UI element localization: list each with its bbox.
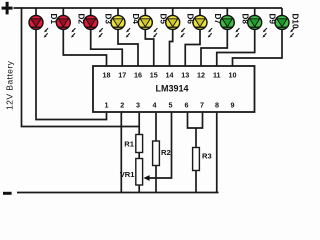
svg-text:1: 1 xyxy=(105,101,109,110)
svg-text:14: 14 xyxy=(166,71,174,80)
LED D5 xyxy=(138,15,157,37)
wire: bridge down to R3 xyxy=(195,128,197,148)
wire: D6 cathode to pin 14 xyxy=(170,29,173,67)
svg-text:16: 16 xyxy=(134,71,142,80)
LED D9 xyxy=(248,15,267,37)
wire: D1 cathode to pin 1 xyxy=(36,29,107,120)
wire: D8 cathode to pin 12 xyxy=(201,29,227,67)
svg-text:8: 8 xyxy=(215,101,219,110)
svg-text:18: 18 xyxy=(103,71,111,80)
battery plus terminal xyxy=(2,2,13,15)
wire: battery positive down-lead to pin 3 xyxy=(22,7,140,126)
LED D8 xyxy=(220,15,239,37)
wire: D10 cathode to pin 10 xyxy=(233,29,283,67)
svg-text:R2: R2 xyxy=(161,148,171,157)
resistor R3 xyxy=(193,148,200,171)
LED D3 xyxy=(84,15,103,37)
svg-text:7: 7 xyxy=(200,101,204,110)
svg-text:3: 3 xyxy=(136,101,140,110)
wire: D3 cathode to pin 17 xyxy=(91,29,123,67)
svg-text:10: 10 xyxy=(229,71,237,80)
svg-text:9: 9 xyxy=(231,101,235,110)
wire: D9 cathode to pin 11 xyxy=(217,29,255,67)
svg-text:4: 4 xyxy=(153,101,157,110)
svg-text:15: 15 xyxy=(150,71,158,80)
wire: pin 4 down to R2 xyxy=(155,113,157,141)
LED D6 xyxy=(166,15,185,37)
LED D2 xyxy=(56,15,75,37)
wire: pin 8 to ground xyxy=(216,113,218,193)
LED D7 xyxy=(193,15,212,37)
wire: D7 cathode to pin 13 xyxy=(185,29,200,67)
svg-text:6: 6 xyxy=(185,101,189,110)
wire: R2 to ground xyxy=(155,166,157,193)
LED D1 xyxy=(29,15,48,37)
svg-text:2: 2 xyxy=(120,101,124,110)
svg-text:5: 5 xyxy=(169,101,173,110)
wire: D2 cathode to pin 18 xyxy=(63,29,106,67)
resistor R1 xyxy=(136,135,143,153)
wire: pin 2 to ground xyxy=(120,113,122,193)
wire: pin 6 / pin 7 bridge xyxy=(188,113,203,128)
svg-text:12V Battery: 12V Battery xyxy=(4,60,14,110)
svg-text:R1: R1 xyxy=(124,140,134,149)
svg-text:17: 17 xyxy=(118,71,126,80)
wiper arrowhead xyxy=(143,175,149,181)
LED D10 xyxy=(275,15,294,37)
potentiometer VR1 xyxy=(136,159,143,186)
resistor R2 xyxy=(153,141,160,166)
svg-text:LM3914: LM3914 xyxy=(155,84,188,94)
wire: R1 to VR1 xyxy=(138,153,140,159)
wire: anode stubs from rail to each LED xyxy=(36,8,282,16)
wire: R3 to ground xyxy=(195,171,197,193)
svg-text:R3: R3 xyxy=(202,152,212,161)
wire: ground bottom rail xyxy=(17,192,219,194)
wire: +12V top rail xyxy=(14,7,283,9)
op-amp / IC U1 LM3914 body xyxy=(93,66,255,112)
svg-text:VR1: VR1 xyxy=(120,170,136,179)
wire: D5 cathode to pin 15 xyxy=(145,29,153,67)
wire: pin 5 to VR1 wiper xyxy=(148,113,172,178)
svg-text:11: 11 xyxy=(213,71,221,80)
wire: pin 3 down to R1 xyxy=(138,113,140,135)
LED D4 xyxy=(111,15,130,37)
svg-text:12: 12 xyxy=(197,71,205,80)
svg-text:13: 13 xyxy=(181,71,189,80)
wire: D4 cathode to pin 16 xyxy=(118,29,138,67)
battery minus terminal xyxy=(3,192,12,195)
wire: VR1 to ground xyxy=(138,185,140,193)
svg-text:D10: D10 xyxy=(291,14,300,29)
